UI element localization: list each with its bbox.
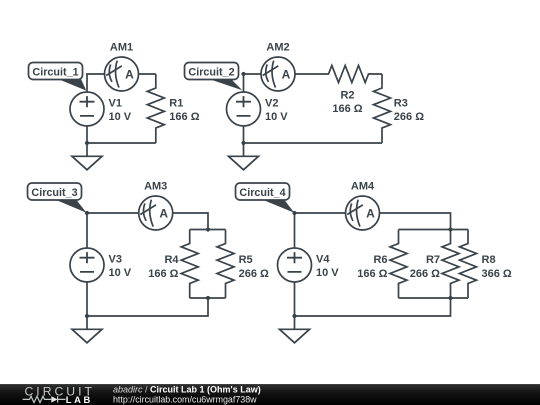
svg-text:Circuit_2: Circuit_2 [188, 67, 234, 79]
wire node to V4 top [294, 213, 296, 249]
voltage source V1 [70, 92, 104, 126]
wire top rail circuit 4 [399, 229, 469, 231]
wire V2 top to node [243, 74, 245, 93]
wire R3 bottom to node [244, 142, 383, 144]
wire V3 bottom to node [86, 282, 88, 316]
wire bottom rail circuit 3 [190, 297, 226, 299]
svg-text:R5: R5 [239, 254, 253, 266]
svg-text:AM3: AM3 [144, 181, 167, 193]
svg-text:A: A [282, 68, 291, 82]
svg-text:10 V: 10 V [109, 267, 132, 279]
junction dot circuit 3 bottom node [85, 314, 89, 318]
svg-text:166 Ω: 166 Ω [148, 268, 178, 280]
resistor R3 [374, 74, 391, 143]
voltage source V4 [278, 248, 312, 282]
resistor R1 [147, 74, 164, 143]
junction dot circuit 2 bottom node [241, 141, 245, 145]
svg-text:R3: R3 [394, 98, 408, 110]
wire V1 top to AM1 left [87, 74, 105, 93]
wire AM4 right to parallel top rail [380, 213, 451, 230]
resistor R7 [442, 230, 459, 299]
wire node to AM4 left [295, 212, 346, 214]
svg-text:A: A [366, 207, 375, 221]
wire node to AM3 left [87, 212, 139, 214]
resistor R8 [460, 230, 477, 299]
voltage source V3 [70, 248, 104, 282]
resistor R4 [181, 230, 198, 299]
junction dot circuit 4 top node [292, 211, 296, 215]
svg-text:R2: R2 [340, 89, 354, 101]
ammeter AM4 [346, 196, 380, 230]
svg-text:R8: R8 [482, 254, 496, 266]
junction dot circuit 2 top node [241, 72, 245, 76]
svg-text:R7: R7 [426, 254, 440, 266]
svg-text:V1: V1 [109, 98, 122, 110]
svg-text:166 Ω: 166 Ω [169, 111, 199, 123]
ground circuit 2 [229, 143, 259, 170]
svg-text:A: A [159, 207, 168, 221]
svg-text:266 Ω: 266 Ω [394, 111, 424, 123]
svg-text:266 Ω: 266 Ω [410, 268, 440, 280]
svg-text:AM2: AM2 [266, 42, 289, 54]
wire bottom rail to node circuit 3 [87, 298, 208, 316]
wire V1 bottom to node [86, 126, 88, 143]
svg-text:AM1: AM1 [110, 42, 133, 54]
junction dot circuit 1 bottom node [85, 141, 89, 145]
svg-text:V4: V4 [316, 254, 330, 266]
ground circuit 1 [72, 143, 102, 170]
svg-text:R1: R1 [169, 98, 183, 110]
CircuitLab logo schematic squiggle (resistor and diode) [23, 396, 66, 402]
svg-text:10 V: 10 V [265, 111, 288, 123]
svg-text:V3: V3 [109, 254, 122, 266]
svg-text:266 Ω: 266 Ω [239, 268, 269, 280]
wire V4 bottom to node [294, 282, 296, 316]
ground circuit 3 [72, 316, 102, 343]
node flag Circuit_1 [29, 63, 87, 91]
wire AM3 right to parallel top rail [173, 213, 208, 230]
svg-text:abadirc / Circuit Lab 1 (Ohm's: abadirc / Circuit Lab 1 (Ohm's Law) [113, 385, 261, 395]
wire R1 bottom to node [87, 142, 156, 144]
node flag Circuit_2 [185, 63, 243, 91]
svg-text:LAB: LAB [66, 394, 93, 405]
svg-text:A: A [125, 68, 134, 82]
wire bottom rail circuit 4 [399, 297, 469, 299]
wire bottom rail to node circuit 4 [295, 298, 451, 316]
wire node to V3 top [86, 213, 88, 249]
junction dot circuit 4 bottom node [292, 314, 296, 318]
wire node to AM2 left [244, 73, 262, 75]
svg-text:R4: R4 [164, 254, 179, 266]
junction dot bottom rail circuit 4 [448, 296, 452, 300]
ground circuit 4 [280, 316, 310, 343]
wire V2 bottom to node [243, 126, 245, 143]
svg-text:Circuit_4: Circuit_4 [239, 187, 285, 199]
voltage source V2 [227, 92, 261, 126]
wire AM2 right to R2 left [295, 73, 315, 75]
junction dot top rail circuit 3 [206, 227, 210, 231]
ammeter AM3 [139, 196, 173, 230]
svg-text:Circuit_1: Circuit_1 [32, 67, 78, 79]
ammeter AM1 [105, 57, 139, 91]
svg-text:AM4: AM4 [351, 181, 375, 193]
svg-text:10 V: 10 V [316, 267, 339, 279]
svg-text:10 V: 10 V [109, 111, 132, 123]
resistor R6 [390, 230, 407, 299]
junction dot circuit 3 top node [85, 211, 89, 215]
svg-text:166 Ω: 166 Ω [332, 103, 362, 115]
wire top rail circuit 3 [190, 229, 226, 231]
svg-text:R6: R6 [373, 254, 387, 266]
resistor R2 [315, 66, 383, 83]
node flag Circuit_3 [28, 183, 87, 213]
wire AM1 right to R1 top [139, 73, 156, 75]
svg-text:Circuit_3: Circuit_3 [31, 187, 77, 199]
svg-text:366 Ω: 366 Ω [482, 268, 512, 280]
node flag Circuit_4 [236, 183, 295, 213]
svg-text:166 Ω: 166 Ω [357, 268, 387, 280]
junction dot bottom rail circuit 3 [206, 296, 210, 300]
resistor R5 [217, 230, 234, 299]
svg-text:V2: V2 [265, 98, 278, 110]
svg-text:http://circuitlab.com/cu6wrmga: http://circuitlab.com/cu6wrmgaf738w [113, 394, 257, 404]
ammeter AM2 [261, 57, 295, 91]
junction dot top rail circuit 4 [448, 227, 452, 231]
